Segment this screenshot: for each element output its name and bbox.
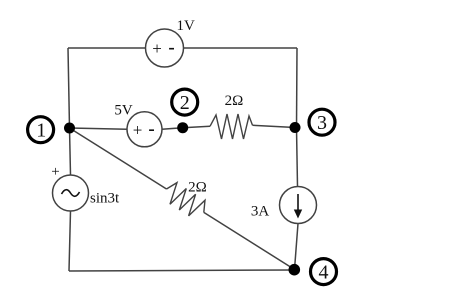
current source I1 3A <box>280 187 317 224</box>
svg-text:1: 1 <box>36 120 46 142</box>
wire: top from 1V source to right corner <box>184 47 298 49</box>
wire: node 1 to 5V source <box>70 128 128 129</box>
svg-text:5V: 5V <box>114 103 133 119</box>
wire: diagonal resistor R2 to node 4 <box>204 212 295 269</box>
wire: 3A source down to node 4 <box>295 224 299 270</box>
svg-text:+: + <box>152 39 162 58</box>
svg-text:1V: 1V <box>177 18 196 34</box>
wire: 5V source to node 2 <box>162 128 183 130</box>
svg-text:2Ω: 2Ω <box>225 93 244 109</box>
node 3 junction dot <box>290 122 301 133</box>
svg-text:+: + <box>51 164 59 180</box>
node label 4 <box>311 259 337 285</box>
svg-text:4: 4 <box>319 262 329 284</box>
wire: right vertical (top corner to node 3) <box>296 48 299 128</box>
wire: left vertical (top corner to node 1) <box>68 48 70 128</box>
wire: resistor R1 to node 3 <box>253 125 296 127</box>
wire: node 1 down to sine source <box>70 128 71 175</box>
wire: node 3 down to 3A source <box>297 128 298 187</box>
node label 2 <box>172 89 198 115</box>
voltage source V1 1V (top) <box>146 29 184 67</box>
resistor R1 2ohm (horizontal, node2-node3) <box>210 114 253 139</box>
svg-text:-: - <box>148 119 154 140</box>
svg-text:2Ω: 2Ω <box>188 180 207 196</box>
svg-text:-: - <box>168 37 174 58</box>
resistor R2 2ohm (diagonal, node1-node4) <box>167 183 206 216</box>
node label 1 <box>28 117 54 143</box>
wire: node 1 to diagonal resistor R2 <box>70 128 167 189</box>
wire: sine source down to bottom-left corner <box>69 211 71 271</box>
arrow of current source <box>297 194 299 212</box>
node label 3 <box>309 109 335 135</box>
svg-text:3: 3 <box>317 112 327 134</box>
node 4 junction dot <box>289 264 301 276</box>
wire: node 2 to resistor R1 <box>183 126 210 127</box>
svg-text:2: 2 <box>180 92 190 114</box>
svg-text:3A: 3A <box>251 204 270 220</box>
wire: top from left corner to 1V source <box>68 47 146 49</box>
svg-text:sin3t: sin3t <box>90 191 120 207</box>
voltage source V2 5V (middle) <box>127 112 162 147</box>
node 1 junction dot <box>64 123 75 134</box>
sine voltage source sin3t <box>53 175 89 211</box>
svg-text:+: + <box>133 121 143 140</box>
wire: bottom from left corner to node 4 <box>69 270 295 271</box>
node 2 junction dot <box>177 122 188 133</box>
